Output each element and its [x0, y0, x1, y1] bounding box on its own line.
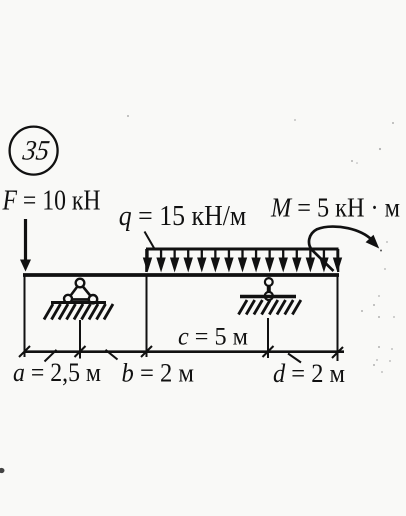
hatching under support A — [44, 304, 113, 320]
extension line at load start — [146, 277, 148, 358]
dimension tick slashes — [19, 346, 343, 358]
moment M curved arrow — [309, 227, 379, 271]
beam — [23, 273, 339, 277]
leader line from q label — [145, 232, 155, 249]
svg-text:c = 5 м: c = 5 м — [178, 324, 248, 351]
hatching under support B — [239, 300, 301, 315]
svg-text:M = 5 кН · м: M = 5 кН · м — [270, 193, 400, 223]
distributed load q — [146, 249, 339, 272]
load arrows — [143, 250, 342, 273]
extension line at F (x=24.5) — [24, 277, 26, 358]
ground line under support B — [240, 295, 296, 298]
connector slash to label b — [106, 350, 118, 360]
svg-text:35: 35 — [20, 136, 51, 167]
extension line at support B — [267, 318, 269, 358]
svg-text:b = 2 м: b = 2 м — [122, 359, 195, 388]
svg-text:q = 15 кН/м: q = 15 кН/м — [119, 201, 247, 232]
svg-text:d = 2 м: d = 2 м — [273, 359, 345, 388]
task number circle 35 — [10, 127, 58, 175]
force F arrow — [20, 219, 31, 272]
scan specks — [127, 115, 395, 373]
connector slash to label d — [288, 354, 301, 363]
scan mark bottom left edge — [0, 468, 5, 473]
scan dark dot near moment arrow — [380, 250, 382, 252]
svg-text:a = 2,5 м: a = 2,5 м — [13, 358, 101, 387]
dimension line — [24, 350, 344, 353]
extension line at support A — [79, 320, 81, 359]
svg-text:F = 10 кН: F = 10 кН — [2, 185, 101, 216]
pin support A (triangle) — [64, 279, 97, 304]
extension line at beam end — [337, 277, 339, 362]
connector slash to label a — [45, 350, 57, 362]
ground line under support A — [51, 301, 106, 304]
roller support B — [265, 278, 273, 300]
